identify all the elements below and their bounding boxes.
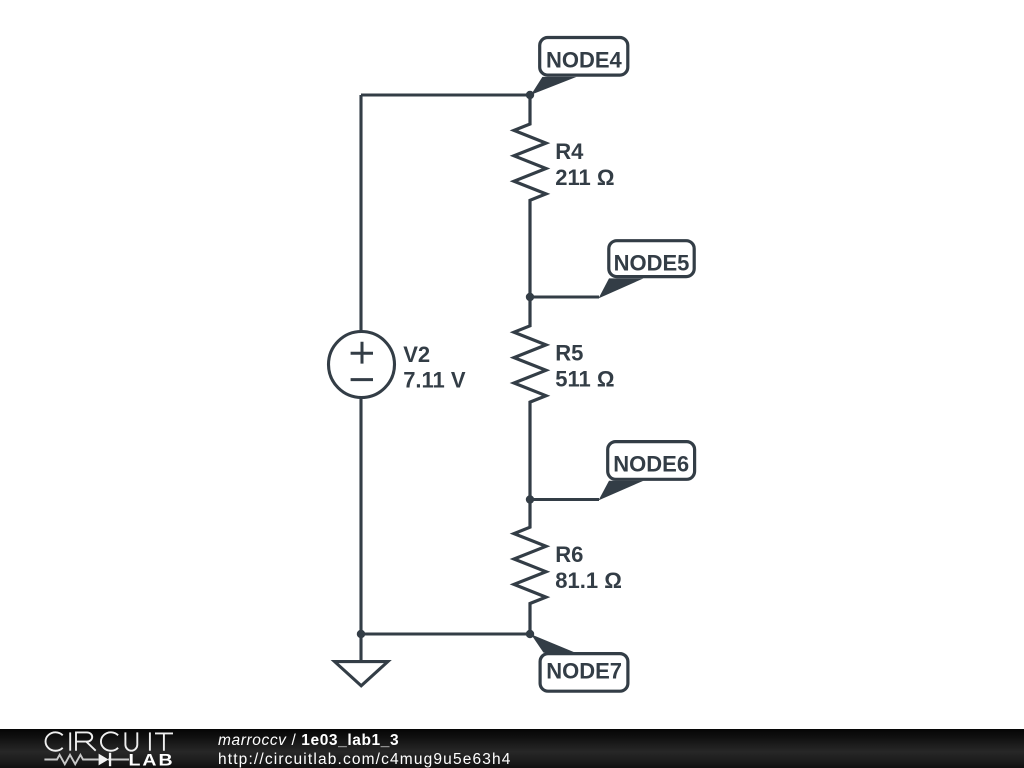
node A junction dot [526, 91, 534, 99]
svg-text:R6: R6 [555, 542, 583, 567]
svg-text:NODE7: NODE7 [546, 658, 622, 683]
logo diode wire [108, 759, 129, 761]
logo letter C [101, 732, 118, 750]
logo letter C [46, 732, 63, 750]
node D junction dot [526, 630, 534, 638]
svg-text:R4: R4 [555, 139, 584, 164]
node B junction dot [526, 293, 534, 301]
wire left vertical upper [359, 95, 362, 333]
callout tail NODE5 [599, 278, 644, 298]
svg-text:LAB: LAB [129, 750, 175, 768]
node label box NODE6 [608, 442, 695, 480]
resistor R6 [514, 499, 546, 634]
svg-text:511 Ω: 511 Ω [555, 367, 614, 392]
svg-text:7.11 V: 7.11 V [403, 367, 466, 392]
wire top horizontal [361, 93, 530, 96]
logo letter U [125, 732, 137, 750]
callout tail NODE6 [599, 481, 644, 501]
node label box NODE4 [540, 38, 628, 76]
svg-text:211 Ω: 211 Ω [555, 165, 614, 190]
footer bar [0, 729, 1024, 768]
svg-text:NODE5: NODE5 [614, 250, 690, 275]
wire left vertical lower [359, 397, 362, 635]
logo letter I [69, 732, 71, 750]
node label box NODE7 [540, 654, 628, 692]
credit text [218, 732, 512, 768]
wire stub to NODE5 [530, 295, 599, 298]
svg-text:81.1 Ω: 81.1 Ω [555, 568, 622, 593]
resistor R4 [514, 95, 546, 297]
callout tail NODE7 [531, 634, 575, 652]
logo letter R [76, 732, 96, 750]
wire bottom horizontal [361, 632, 530, 635]
CircuitLab logo [40, 726, 185, 768]
resistor R5 [514, 297, 546, 499]
wire stub to NODE6 [530, 498, 599, 501]
svg-text:NODE4: NODE4 [546, 47, 623, 72]
svg-text:NODE6: NODE6 [613, 452, 689, 477]
node C junction dot [526, 495, 534, 503]
logo letter I [149, 732, 151, 750]
node label box NODE5 [609, 241, 694, 277]
svg-text:R5: R5 [555, 341, 583, 366]
voltage source V2 [329, 332, 395, 398]
logo diode [99, 754, 109, 766]
callout tail NODE4 [531, 77, 577, 95]
logo letter T [155, 733, 173, 750]
node E junction dot [357, 630, 365, 638]
ground [359, 634, 362, 661]
svg-text:V2: V2 [403, 342, 430, 367]
logo resistor wire [44, 755, 98, 764]
